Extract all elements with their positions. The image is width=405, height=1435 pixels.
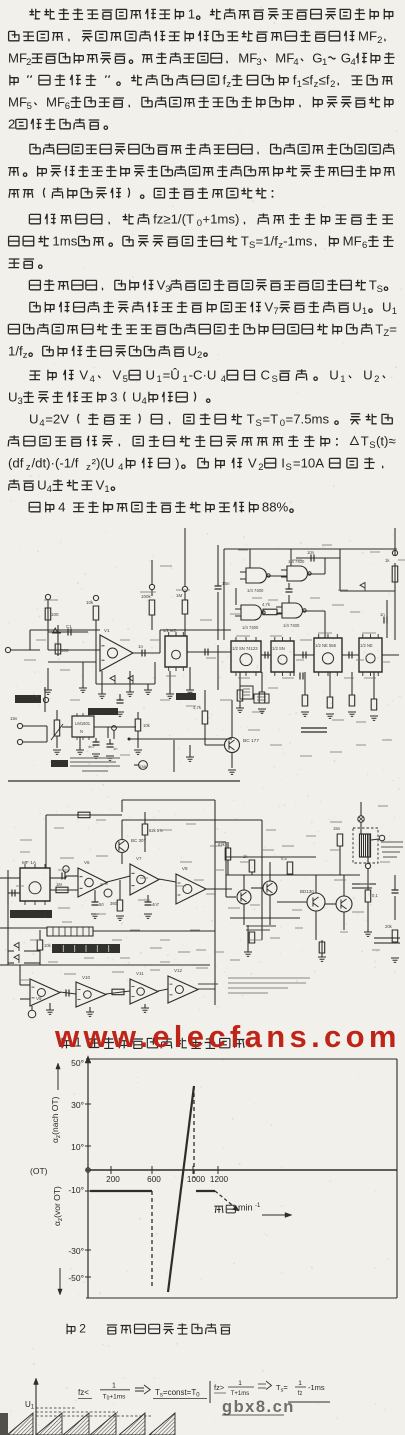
svg-text:15n: 15n (222, 581, 230, 586)
svg-text:=: = (389, 321, 397, 336)
svg-text:MF: MF (358, 28, 377, 43)
svg-text:=10A: =10A (293, 455, 324, 470)
svg-text:V7: V7 (136, 856, 142, 861)
ground G2 (79, 662, 87, 692)
svg-text:10k: 10k (86, 600, 94, 605)
svg-text:N: N (80, 729, 83, 734)
svg-text:-C·U: -C·U (189, 367, 217, 382)
svg-text:1: 1 (322, 57, 327, 68)
black label input amp (15, 687, 49, 712)
y tick labels (68, 1058, 84, 1283)
capacitor C4d (349, 652, 352, 659)
terminal supply A (45, 594, 50, 599)
op-amp V11 (130, 971, 158, 1004)
svg-text:1n: 1n (380, 612, 385, 617)
svg-text:6: 6 (65, 101, 70, 112)
wire gate net (224, 549, 397, 640)
svg-text:200: 200 (106, 1175, 120, 1184)
ground G25 (364, 925, 372, 936)
svg-text:U: U (352, 299, 362, 314)
regulator U2 LM1601 (72, 713, 94, 740)
svg-text:T: T (247, 411, 255, 426)
curve dash 600 (151, 1191, 153, 1289)
svg-text:V: V (79, 367, 88, 382)
wire mid vertical (173, 740, 175, 772)
ground G23 (244, 925, 252, 956)
svg-text:1: 1 (297, 79, 302, 90)
svg-text:6: 6 (362, 240, 367, 251)
svg-text:1: 1 (298, 1380, 302, 1387)
diode D4 (360, 583, 365, 592)
ground G8 (186, 667, 194, 694)
ground G11 (186, 745, 194, 761)
ground G3 (98, 671, 106, 698)
svg-text:3: 3 (18, 396, 23, 407)
svg-text:V9: V9 (36, 996, 42, 1001)
svg-text:fz<: fz< (78, 1388, 89, 1397)
svg-text:1ms: 1ms (52, 233, 77, 248)
svg-text:V: V (265, 299, 274, 314)
watermark elecfans (54, 1019, 401, 1054)
svg-text:1000: 1000 (187, 1175, 206, 1184)
resistor R9 (326, 672, 334, 718)
resistor R2 500 (55, 644, 69, 654)
flip-flop MF5 (359, 634, 382, 676)
svg-text:U: U (37, 477, 47, 492)
resistor R10 (348, 672, 356, 716)
terminal input (5, 647, 10, 652)
svg-text:360: 360 (110, 901, 118, 906)
svg-text:z: z (26, 462, 31, 473)
svg-text:10n: 10n (307, 550, 315, 555)
svg-text:1n: 1n (113, 746, 117, 751)
op-amp V6 (78, 860, 107, 897)
resistor R30 15n (333, 826, 343, 875)
y label upper (50, 1063, 62, 1143)
ground G6 (236, 701, 244, 712)
svg-text:-1: -1 (255, 1203, 261, 1209)
x axis (86, 1169, 397, 1171)
svg-text:fz>: fz> (214, 1383, 225, 1392)
svg-text:MF: MF (8, 50, 27, 65)
svg-text:4n7: 4n7 (152, 902, 160, 907)
fig3 formula right (214, 1380, 325, 1397)
svg-text:S: S (377, 284, 383, 295)
svg-text:+1ms): +1ms) (202, 211, 239, 226)
junction dot (128, 738, 131, 741)
svg-text:4: 4 (39, 418, 44, 429)
svg-text:7: 7 (273, 306, 278, 317)
capacitor C8 (116, 694, 124, 716)
svg-text:=1/f: =1/f (256, 233, 279, 248)
svg-text:(df: (df (8, 455, 24, 470)
svg-text:10°: 10° (71, 1142, 84, 1152)
OT label (30, 1166, 48, 1176)
black label lm (88, 708, 118, 715)
terminal coil bottom (365, 857, 370, 875)
svg-text:Ts=: Ts= (276, 1383, 288, 1393)
svg-text:Ts=const=T0: Ts=const=T0 (155, 1388, 200, 1399)
svg-text:V8: V8 (182, 866, 188, 871)
svg-text:4: 4 (142, 396, 147, 407)
svg-text:1: 1 (112, 1383, 116, 1390)
svg-text:0,1: 0,1 (372, 893, 378, 898)
svg-text:3: 3 (256, 57, 261, 68)
ground G9 (76, 737, 84, 754)
box aux A (240, 686, 253, 699)
svg-text:fz: fz (298, 1391, 303, 1397)
transistor Q6 (325, 875, 352, 930)
y axis (85, 1056, 90, 1298)
svg-text:αz(vor OT): αz(vor OT) (52, 1186, 64, 1226)
x tick labels (106, 1175, 228, 1184)
svg-text:S: S (286, 462, 292, 473)
svg-text:fz≥1/(T: fz≥1/(T (153, 211, 194, 226)
capacitor C2 1n (138, 644, 145, 657)
svg-text:G: G (312, 50, 322, 65)
wire opamp out (133, 630, 231, 653)
svg-text:1: 1 (157, 374, 162, 385)
resistor R25 (218, 842, 231, 875)
svg-text:10k: 10k (44, 943, 52, 948)
nand gate G2 (281, 559, 311, 581)
op-amp V9 (30, 979, 60, 1006)
svg-text:4: 4 (90, 374, 95, 385)
svg-text:1k: 1k (385, 558, 390, 563)
y ticks (85, 1062, 91, 1277)
svg-text:BC 307: BC 307 (131, 838, 147, 843)
svg-text:0,5: 0,5 (281, 856, 287, 861)
svg-text:V: V (113, 367, 122, 382)
svg-text:(OT): (OT) (30, 1166, 48, 1176)
svg-text:100k: 100k (141, 594, 152, 599)
wire ic row (187, 652, 399, 655)
svg-text:1: 1 (238, 1380, 242, 1387)
svg-text:4: 4 (47, 484, 52, 495)
resistor R20 (56, 882, 68, 893)
wire amp row2 (20, 965, 215, 999)
black label trigger (10, 910, 52, 918)
label smudges top (44, 560, 376, 722)
svg-text:V12: V12 (174, 968, 183, 973)
wire right net (340, 528, 395, 640)
svg-text:1/2 MC: 1/2 MC (163, 628, 177, 633)
svg-text:4n7: 4n7 (88, 744, 95, 749)
capacitor C12 (66, 990, 69, 997)
svg-text:1: 1 (340, 374, 345, 385)
ground G24 (318, 940, 326, 961)
capacitor C7 1n (380, 612, 387, 624)
capacitor C9a (88, 738, 100, 758)
svg-text:z: z (23, 350, 28, 361)
svg-text:15v: 15v (10, 716, 18, 721)
capacitor C1 (66, 624, 72, 636)
svg-text:0: 0 (280, 418, 285, 429)
svg-text:10k: 10k (143, 723, 151, 728)
curve dash tail (215, 1191, 239, 1211)
curve ramp (168, 1086, 194, 1292)
svg-text:V10: V10 (82, 975, 91, 980)
scale strip (47, 927, 93, 936)
flip-flop MF2 (231, 637, 261, 676)
curve dash 1000 (193, 1086, 195, 1178)
svg-text:0: 0 (197, 218, 202, 229)
diode D10 (8, 943, 40, 952)
svg-text:1200: 1200 (210, 1175, 229, 1184)
capacitor C10 (91, 890, 104, 918)
terminal sensor (28, 1006, 36, 1018)
flip-flop MF4 (314, 634, 342, 676)
resistor R4 100k (141, 560, 155, 630)
resistor R7 (385, 558, 398, 582)
svg-text:S: S (256, 418, 262, 429)
svg-text:min: min (238, 1203, 253, 1213)
svg-text:/dt)·(-1/f: /dt)·(-1/f (32, 455, 79, 470)
svg-text:U: U (29, 411, 39, 426)
svg-text:1/2 NE 556: 1/2 NE 556 (315, 643, 337, 648)
transistor Q2 (116, 820, 147, 864)
svg-text:C1: C1 (66, 624, 72, 629)
wire input net (11, 600, 100, 662)
svg-text:≤f: ≤f (319, 72, 330, 87)
resistor R3 10k (86, 600, 99, 620)
wire amp row (50, 866, 232, 897)
svg-text:4: 4 (351, 57, 356, 68)
svg-text:MF: MF (343, 233, 362, 248)
svg-text:53B: 53B (139, 764, 146, 769)
y label lower (52, 1186, 64, 1295)
fig3 gbx watermark (222, 1398, 330, 1416)
terminal top right (392, 549, 397, 556)
op-amp V12 (168, 968, 198, 1003)
svg-text:U: U (8, 389, 18, 404)
svg-text:4: 4 (58, 499, 65, 514)
nand gate G3 (235, 605, 265, 630)
origin marker (86, 1168, 91, 1173)
flip-flop MF1 (163, 628, 187, 671)
svg-text:C: C (261, 367, 271, 382)
resistor R14 4.7k (193, 690, 208, 745)
svg-text:BD130: BD130 (300, 889, 314, 894)
svg-text:V: V (96, 477, 105, 492)
transistor Q4 (251, 862, 277, 925)
wire top net (122, 800, 262, 1005)
svg-text:T: T (241, 233, 249, 248)
svg-text:²)(U: ²)(U (92, 455, 115, 470)
svg-text:50: 50 (99, 902, 104, 907)
svg-text:62k 5%: 62k 5% (149, 828, 163, 833)
wire mf in (8, 878, 20, 905)
resistor R15 10k (134, 712, 151, 754)
diode D1 (53, 628, 62, 633)
curve high segment (196, 1190, 215, 1192)
wire feedback (96, 620, 155, 684)
svg-text:1: 1 (392, 306, 397, 317)
svg-text:1/2 NE: 1/2 NE (360, 643, 373, 648)
note text (228, 978, 310, 993)
svg-text:MF 1A: MF 1A (22, 860, 37, 866)
svg-text:U: U (146, 367, 156, 382)
capacitor C3 15n (215, 545, 231, 640)
terminal 53B (134, 761, 147, 770)
svg-text:1M: 1M (176, 593, 183, 598)
ignition coil T1 (353, 828, 378, 863)
svg-text:z: z (226, 79, 231, 90)
resistor R29 (249, 932, 255, 943)
diode D3 (128, 676, 133, 685)
svg-text:MF: MF (8, 94, 27, 109)
svg-text:2: 2 (330, 79, 335, 90)
svg-text:S: S (369, 440, 375, 451)
transistor Q3 (226, 875, 251, 925)
terminal coil top (358, 802, 364, 834)
svg-text:88%: 88% (262, 499, 289, 514)
svg-text:500: 500 (61, 648, 69, 653)
svg-text:S: S (272, 374, 278, 385)
black label stages (52, 944, 120, 953)
svg-text:U: U (382, 299, 392, 314)
svg-text:V6: V6 (84, 860, 90, 865)
black label coil (352, 884, 376, 888)
svg-text:2: 2 (258, 462, 263, 473)
capacitor C13 (385, 875, 399, 962)
svg-text:V: V (248, 455, 257, 470)
svg-text:-1ms: -1ms (283, 233, 313, 248)
label smudges bottom2 (16, 820, 390, 980)
resistor R22 (110, 880, 124, 920)
svg-text:www.elecfans.com: www.elecfans.com (54, 1019, 401, 1054)
svg-text:≤f: ≤f (302, 72, 313, 87)
svg-text:MF: MF (46, 94, 65, 109)
ground G22 (141, 1004, 149, 1012)
svg-text:z: z (86, 462, 91, 473)
svg-text:=Û: =Û (163, 367, 180, 382)
flip-flop MF3 (271, 637, 294, 676)
svg-text:3: 3 (165, 284, 170, 295)
svg-text:4: 4 (293, 57, 298, 68)
svg-text:2: 2 (374, 374, 379, 385)
fig3 divider (209, 1381, 211, 1403)
svg-text:1/f: 1/f (8, 343, 23, 358)
terminal coil right (371, 835, 385, 841)
wire aux top (0, 812, 122, 965)
diode D2 (110, 676, 115, 685)
wire bottom bus (8, 630, 240, 781)
capacitor C11 (144, 895, 160, 918)
black label power (176, 693, 196, 700)
flip-flop MF7 (20, 860, 50, 905)
terminal +15V (10, 716, 47, 729)
op-amp V1 (100, 628, 133, 671)
svg-text:1/2 SN 74123: 1/2 SN 74123 (232, 646, 258, 651)
svg-text:3: 3 (110, 389, 117, 404)
wire reg net (62, 727, 232, 739)
capacitor C4b (265, 652, 268, 659)
svg-text:LM1601: LM1601 (75, 721, 91, 726)
label battery (374, 938, 400, 943)
label idle strip (301, 728, 327, 732)
capacitor C6 10n (307, 550, 315, 562)
svg-text:U: U (363, 367, 373, 382)
diode D11 (8, 955, 40, 964)
box aux B (254, 694, 269, 703)
label control current (246, 926, 276, 930)
nand gate G4 (276, 603, 306, 628)
svg-text:1/4 7400: 1/4 7400 (242, 625, 259, 630)
svg-text:T0+1ms: T0+1ms (103, 1394, 127, 1402)
svg-text:=2V: =2V (45, 411, 69, 426)
resistor R1 100 (45, 608, 59, 620)
svg-text:20k: 20k (385, 924, 393, 929)
ground G1 (44, 668, 52, 694)
svg-text:(t)≈: (t)≈ (376, 433, 396, 448)
svg-text:4,7k: 4,7k (262, 602, 271, 607)
nand gate G1 (240, 568, 270, 593)
terminal -15V (17, 726, 47, 745)
svg-text:600: 600 (147, 1175, 161, 1184)
svg-text:1/4 7400: 1/4 7400 (283, 623, 300, 628)
capacitor C4c (303, 652, 306, 659)
svg-text:V1: V1 (104, 628, 110, 633)
svg-text:1: 1 (104, 484, 109, 495)
svg-text:2: 2 (8, 116, 15, 131)
capacitor C6b (286, 583, 293, 603)
op-amp V8 (176, 866, 206, 904)
ground G4 (126, 671, 134, 696)
op-amp V10 (76, 975, 106, 1007)
svg-text:15n: 15n (333, 826, 341, 831)
svg-text:-1ms: -1ms (308, 1383, 325, 1392)
op-amp V7 (130, 856, 159, 895)
resistor R26 (243, 854, 255, 875)
resistor R8 (301, 672, 309, 716)
capacitor C5 (294, 662, 303, 680)
resistor R27 (281, 856, 293, 875)
svg-text:MF: MF (275, 50, 294, 65)
ground G5 (144, 684, 152, 694)
svg-text:I: I (281, 455, 285, 470)
resistor R23 (37, 930, 51, 965)
label smudges top2 (24, 545, 405, 756)
x ticks (111, 1166, 218, 1174)
svg-text:1/2 SN: 1/2 SN (272, 646, 285, 651)
resistor R21 (142, 812, 163, 852)
svg-text:=T: =T (262, 411, 278, 426)
svg-text:T: T (361, 433, 369, 448)
svg-text:1M: 1M (56, 882, 62, 887)
svg-text:U: U (132, 389, 142, 404)
svg-text:U: U (188, 343, 198, 358)
svg-text:2: 2 (377, 35, 382, 46)
ground G7 (166, 671, 174, 698)
svg-text:2: 2 (26, 57, 31, 68)
wire collector rail (215, 842, 360, 918)
fig3 formula left (78, 1383, 207, 1402)
fig3 dashed levels (36, 1408, 152, 1416)
resistor R13 (258, 672, 266, 713)
svg-text:2: 2 (79, 1321, 86, 1335)
resistor R5 1M (176, 528, 188, 636)
svg-text:-50°: -50° (68, 1273, 84, 1283)
svg-text:T: T (375, 321, 383, 336)
resistor R6 4.7k (262, 602, 277, 615)
ground G20 (46, 1003, 54, 1014)
svg-text:2: 2 (197, 350, 202, 361)
caption text smudge (70, 758, 120, 771)
fig3 left clipped ramp (0, 1413, 8, 1435)
svg-text:5: 5 (27, 101, 32, 112)
black label caption fig (51, 760, 68, 767)
